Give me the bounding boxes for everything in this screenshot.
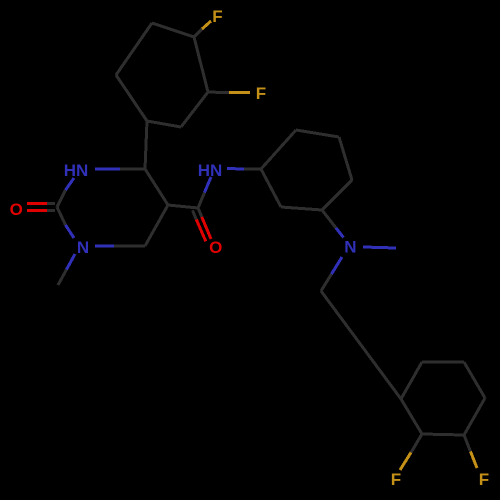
svg-text:N: N (77, 238, 89, 257)
svg-text:O: O (10, 200, 23, 219)
svg-text:O: O (209, 238, 222, 257)
svg-text:N: N (344, 238, 356, 257)
svg-text:F: F (391, 470, 401, 489)
svg-text:F: F (212, 7, 222, 26)
svg-text:HN: HN (198, 161, 223, 180)
svg-text:F: F (479, 470, 489, 489)
svg-text:HN: HN (64, 161, 89, 180)
svg-text:F: F (256, 84, 266, 103)
